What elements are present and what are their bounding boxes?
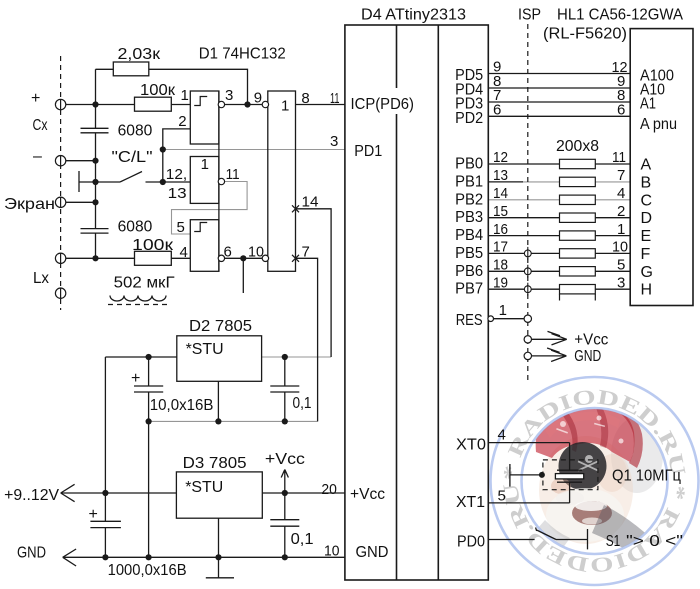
svg-text:PB5: PB5 [455, 245, 483, 262]
svg-text:S1: S1 [606, 533, 621, 550]
svg-text:B: B [641, 174, 652, 191]
svg-text:+: + [31, 90, 40, 107]
svg-text:0,1: 0,1 [291, 531, 314, 548]
svg-text:D: D [641, 210, 653, 227]
svg-text:6: 6 [617, 102, 625, 119]
svg-text:Экран: Экран [4, 196, 55, 213]
svg-text:3: 3 [330, 133, 338, 150]
svg-text:12: 12 [493, 149, 508, 166]
svg-text:C: C [641, 192, 653, 209]
svg-text:Cx: Cx [33, 117, 48, 134]
svg-text:PB1: PB1 [455, 173, 483, 190]
svg-text:+: + [131, 370, 140, 387]
svg-text:GND: GND [17, 545, 46, 562]
svg-text:1: 1 [281, 98, 289, 115]
svg-text:3: 3 [617, 274, 625, 291]
svg-text:Lx: Lx [33, 270, 49, 287]
svg-text:6: 6 [224, 244, 232, 261]
svg-text:1: 1 [201, 156, 209, 173]
svg-text:1: 1 [617, 221, 625, 238]
svg-text:D3 7805: D3 7805 [183, 455, 247, 472]
svg-text:*STU: *STU [185, 479, 223, 496]
svg-text:5: 5 [498, 488, 506, 505]
svg-text:RES: RES [456, 312, 483, 329]
svg-text:E: E [641, 228, 652, 245]
svg-text:+Vcc: +Vcc [574, 332, 608, 349]
svg-text:6080: 6080 [118, 123, 153, 140]
svg-text:+Vcc: +Vcc [350, 486, 385, 503]
svg-text:XT0: XT0 [456, 437, 486, 454]
svg-text:4: 4 [180, 244, 188, 261]
svg-text:12,: 12, [166, 166, 187, 183]
svg-text:A: A [641, 157, 652, 174]
svg-text:7: 7 [617, 167, 625, 184]
svg-text:PB0: PB0 [455, 156, 483, 173]
svg-text:4: 4 [617, 185, 625, 202]
svg-text:A1: A1 [640, 96, 656, 113]
svg-text:A pnu: A pnu [640, 116, 677, 133]
svg-text:100к: 100к [140, 82, 176, 99]
svg-text:+: + [89, 506, 98, 523]
svg-text:20: 20 [321, 481, 337, 498]
svg-text:1: 1 [499, 302, 507, 319]
svg-text:19: 19 [493, 274, 508, 291]
svg-text:16: 16 [493, 221, 508, 238]
svg-text:2,03к: 2,03к [118, 46, 162, 63]
svg-text:2: 2 [178, 113, 186, 130]
svg-text:9: 9 [254, 90, 262, 107]
svg-text:Q1 10МГц: Q1 10МГц [612, 468, 681, 485]
svg-text:13: 13 [493, 167, 508, 184]
svg-text:11: 11 [330, 90, 340, 107]
svg-text:PD2: PD2 [455, 110, 483, 127]
svg-text:XT1: XT1 [456, 494, 485, 511]
svg-text:10,0x16В: 10,0x16В [150, 397, 214, 414]
svg-text:1000,0x16В: 1000,0x16В [108, 562, 187, 579]
svg-text:8: 8 [301, 90, 309, 107]
svg-text:13: 13 [168, 185, 187, 202]
svg-text:PB2: PB2 [455, 191, 483, 208]
svg-text:GND: GND [356, 544, 389, 561]
svg-text:10: 10 [324, 543, 340, 560]
svg-text:18: 18 [493, 257, 508, 274]
svg-text:14: 14 [493, 185, 508, 202]
svg-text:F: F [641, 246, 651, 263]
svg-text:5: 5 [177, 219, 185, 236]
svg-text:ISP: ISP [518, 7, 541, 24]
svg-text:PB3: PB3 [455, 209, 483, 226]
svg-text:200х8: 200х8 [556, 138, 599, 155]
svg-text:100к: 100к [132, 237, 174, 254]
svg-text:10: 10 [248, 244, 264, 261]
svg-text:10: 10 [612, 239, 628, 256]
svg-text:15: 15 [493, 203, 508, 220]
svg-text:4: 4 [498, 427, 506, 444]
svg-text:PB6: PB6 [455, 263, 483, 280]
svg-text:PD0: PD0 [457, 534, 485, 551]
svg-text:GND: GND [574, 348, 601, 365]
svg-text:11: 11 [226, 166, 240, 183]
svg-text:"C/L": "C/L" [112, 149, 153, 166]
svg-text:*STU: *STU [186, 341, 224, 358]
svg-text:3: 3 [225, 87, 233, 104]
svg-text:6080: 6080 [118, 219, 153, 236]
svg-text:HL1 CA56-12GWA: HL1 CA56-12GWA [557, 7, 683, 24]
svg-text:+9..12V: +9..12V [4, 487, 59, 504]
svg-text:17: 17 [493, 239, 508, 256]
svg-text:D4 ATtiny2313: D4 ATtiny2313 [361, 7, 466, 24]
svg-text:2: 2 [617, 203, 625, 220]
svg-text:–: – [33, 148, 42, 165]
svg-text:PB4: PB4 [455, 227, 483, 244]
svg-text:G: G [641, 264, 653, 281]
svg-text:5: 5 [617, 257, 625, 274]
svg-text:ICP(PD6): ICP(PD6) [351, 96, 415, 113]
svg-text:D2 7805: D2 7805 [189, 318, 252, 335]
svg-text:H: H [641, 282, 653, 299]
svg-text:6: 6 [493, 101, 501, 118]
svg-text:7: 7 [302, 244, 310, 261]
svg-text:PB7: PB7 [455, 281, 483, 298]
svg-text:1: 1 [181, 87, 189, 104]
svg-text:14: 14 [302, 194, 319, 211]
svg-text:11: 11 [612, 149, 626, 166]
svg-text:"> 0 <": "> 0 <" [626, 533, 683, 550]
svg-text:0,1: 0,1 [293, 395, 312, 412]
svg-text:(RL-F5620): (RL-F5620) [543, 26, 627, 43]
svg-text:502 мкГ: 502 мкГ [114, 275, 175, 292]
svg-text:PD1: PD1 [354, 143, 382, 160]
svg-text:D1 74HC132: D1 74HC132 [199, 46, 286, 63]
svg-text:+Vcc: +Vcc [265, 451, 305, 468]
